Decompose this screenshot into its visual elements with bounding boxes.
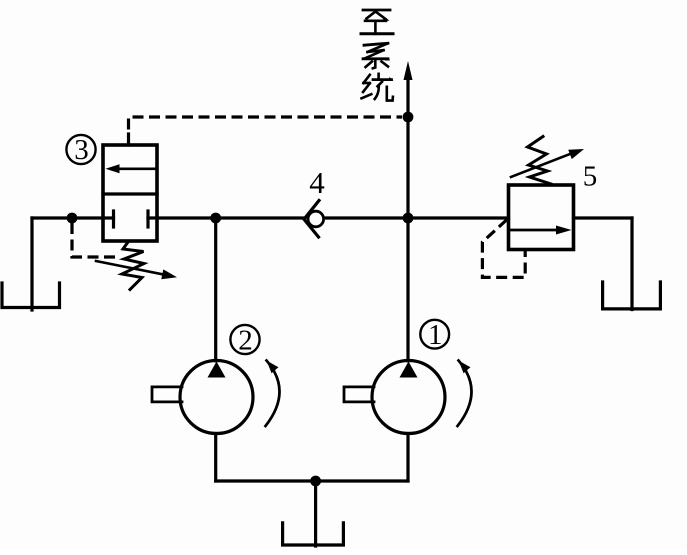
svg-text:1: 1: [428, 319, 443, 351]
svg-text:5: 5: [583, 161, 598, 193]
svg-text:3: 3: [74, 134, 89, 166]
svg-text:4: 4: [309, 165, 325, 200]
svg-text:2: 2: [238, 325, 253, 357]
